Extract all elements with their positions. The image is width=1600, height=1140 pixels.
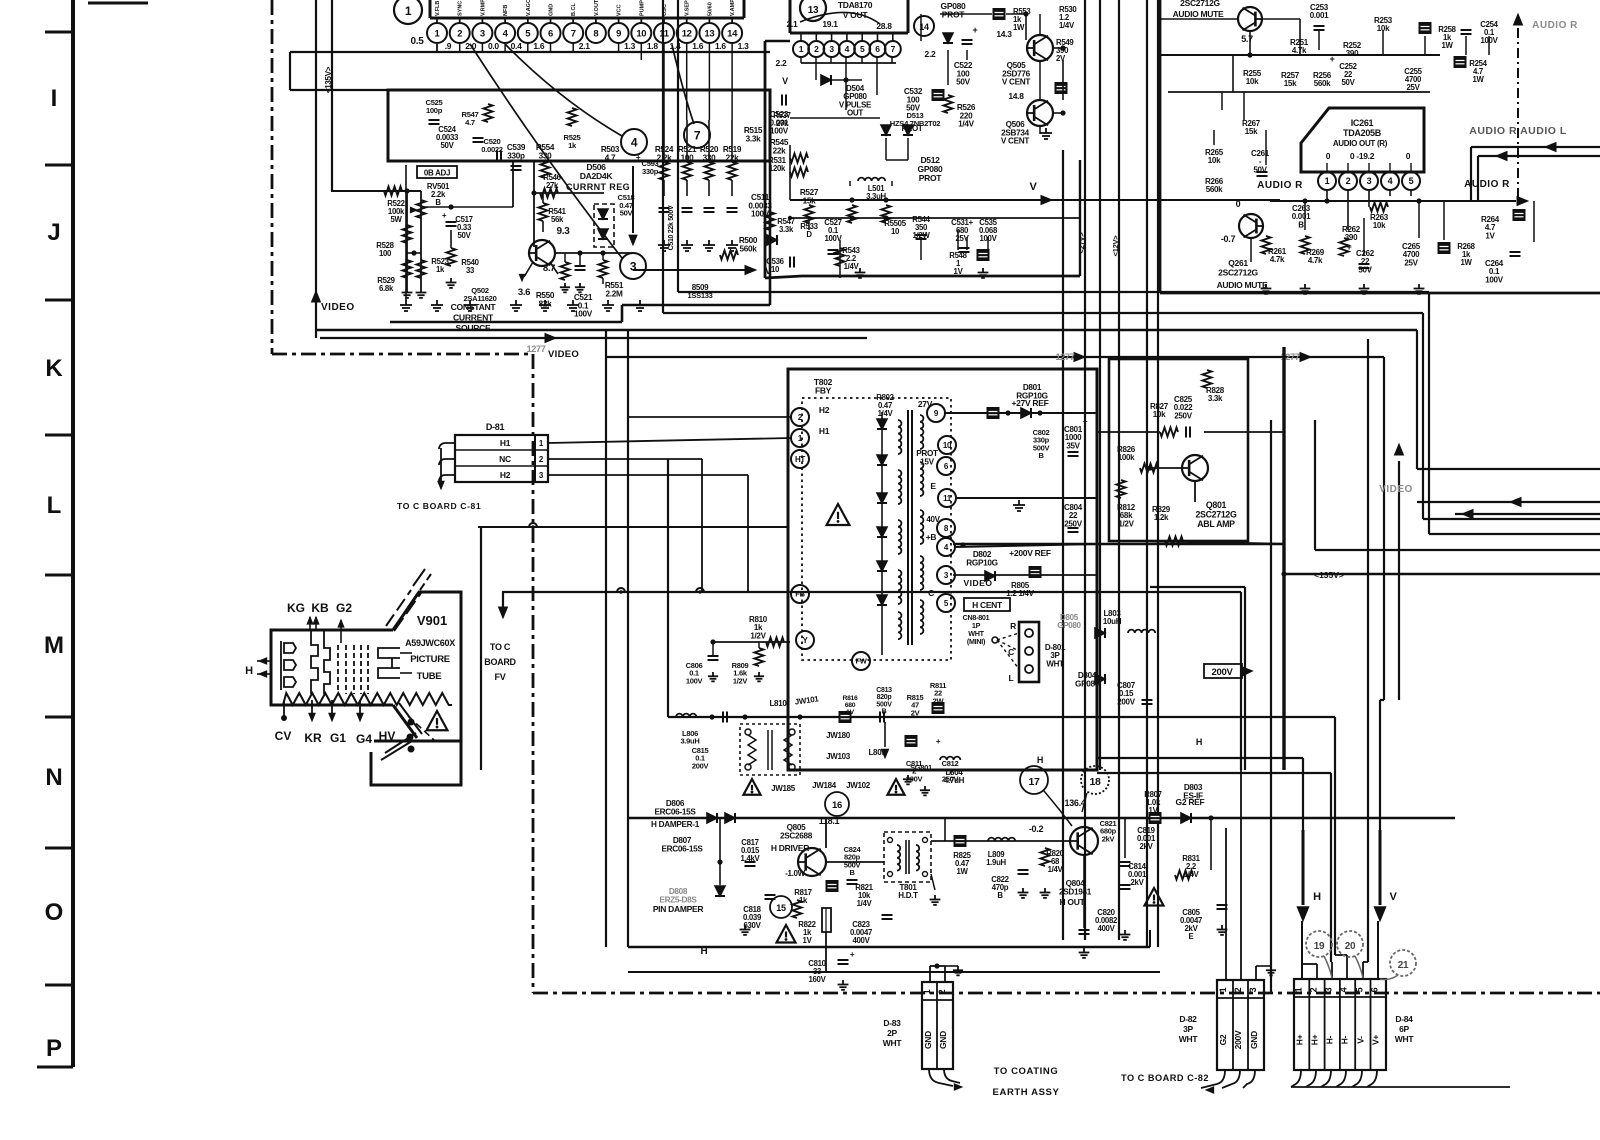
svg-text:V+: V+ — [1371, 1035, 1381, 1045]
svg-text:400V: 400V — [1097, 924, 1115, 933]
svg-text:V CENT: V CENT — [1001, 137, 1030, 146]
svg-text:2V: 2V — [911, 708, 920, 717]
svg-text:H1: H1 — [500, 438, 511, 448]
svg-text:1.4: 1.4 — [670, 41, 681, 51]
svg-text:1SS133: 1SS133 — [688, 291, 713, 300]
svg-text:AUDIO R: AUDIO R — [1532, 20, 1578, 31]
svg-text:6.8k: 6.8k — [379, 284, 394, 293]
svg-text:1W: 1W — [956, 867, 968, 876]
svg-text:FV: FV — [495, 672, 506, 682]
svg-text:4: 4 — [631, 135, 638, 149]
svg-text:50V: 50V — [956, 78, 971, 87]
svg-text:1/2V: 1/2V — [1118, 519, 1134, 528]
svg-text:L: L — [47, 492, 62, 519]
svg-text:JW180: JW180 — [826, 731, 851, 740]
svg-text:JW185: JW185 — [771, 784, 796, 793]
svg-text:B: B — [1038, 451, 1044, 460]
svg-text:ERC06-15S: ERC06-15S — [662, 844, 704, 853]
svg-text:-0.2: -0.2 — [1029, 824, 1044, 834]
svg-text:TUBE: TUBE — [417, 671, 442, 682]
svg-text:Q261: Q261 — [1228, 258, 1248, 268]
svg-text:R: R — [1010, 621, 1016, 631]
svg-text:2: 2 — [1309, 987, 1319, 992]
svg-text:118.1: 118.1 — [819, 816, 840, 826]
svg-text:560k: 560k — [1314, 79, 1331, 88]
svg-text:Q801: Q801 — [1206, 500, 1227, 510]
svg-text:200V: 200V — [1117, 697, 1135, 706]
svg-text:HV: HV — [379, 729, 396, 743]
svg-text:10k: 10k — [1246, 77, 1259, 86]
svg-text:GP080: GP080 — [1075, 679, 1100, 688]
svg-text:250V: 250V — [1174, 411, 1192, 420]
svg-text:5W: 5W — [390, 215, 402, 224]
svg-text:E: E — [930, 481, 936, 491]
svg-text:AUDIO MUTE: AUDIO MUTE — [1173, 9, 1224, 19]
svg-text:3.3k: 3.3k — [779, 225, 794, 234]
svg-text:2SC2712G: 2SC2712G — [1195, 510, 1237, 520]
svg-text:50V: 50V — [1358, 265, 1372, 274]
svg-text:G4: G4 — [356, 732, 372, 746]
svg-text:3.3k: 3.3k — [746, 134, 761, 143]
svg-text:100V: 100V — [1485, 275, 1503, 284]
svg-text:TDA205B: TDA205B — [1343, 128, 1382, 138]
svg-text:B: B — [435, 198, 441, 207]
svg-text:B: B — [997, 891, 1003, 900]
svg-text:CURRENT: CURRENT — [453, 313, 494, 323]
svg-text:+: + — [1347, 242, 1352, 252]
svg-text:2: 2 — [937, 989, 947, 994]
svg-text:10k: 10k — [1208, 156, 1221, 165]
svg-text:2.1: 2.1 — [787, 19, 798, 29]
svg-text:1.2k: 1.2k — [1154, 513, 1169, 522]
svg-text:V.FLB: V.FLB — [435, 1, 441, 16]
svg-text:SOURCE: SOURCE — [456, 323, 492, 333]
svg-text:1.6: 1.6 — [692, 41, 703, 51]
svg-text:J: J — [47, 219, 60, 246]
svg-text:+: + — [1083, 417, 1088, 426]
svg-text:H: H — [245, 665, 253, 677]
svg-text:3.6: 3.6 — [518, 287, 530, 298]
svg-text:H2: H2 — [819, 405, 830, 415]
svg-text:3: 3 — [480, 28, 485, 39]
svg-text:.9: .9 — [445, 41, 452, 51]
svg-text:200V: 200V — [906, 774, 923, 783]
svg-text:10: 10 — [943, 441, 952, 450]
svg-text:H CENT: H CENT — [972, 600, 1003, 610]
svg-text:4: 4 — [845, 44, 850, 54]
svg-text:+200V REF: +200V REF — [1009, 548, 1051, 558]
svg-text:D-84: D-84 — [1395, 1014, 1413, 1024]
svg-text:N: N — [45, 764, 62, 791]
svg-text:ABL AMP: ABL AMP — [1197, 519, 1235, 529]
svg-text:VIDEO: VIDEO — [1379, 484, 1413, 495]
svg-text:1: 1 — [405, 4, 412, 18]
svg-text:H+: H+ — [1310, 1034, 1320, 1045]
svg-text:50/60: 50/60 — [707, 2, 713, 16]
svg-text:V.RMP: V.RMP — [480, 0, 486, 16]
svg-text:V.OUT: V.OUT — [594, 0, 600, 16]
svg-text:GND: GND — [938, 1031, 948, 1049]
svg-text:0.0022: 0.0022 — [481, 145, 503, 154]
svg-text:1/2V: 1/2V — [733, 676, 748, 685]
svg-text:2.1: 2.1 — [579, 41, 590, 51]
svg-text:2: 2 — [1346, 176, 1351, 186]
svg-text:390: 390 — [1346, 49, 1359, 58]
svg-text:6P: 6P — [1399, 1024, 1409, 1034]
svg-text:560k: 560k — [739, 244, 757, 253]
svg-text:+: + — [636, 153, 641, 162]
svg-text:100V: 100V — [770, 127, 789, 136]
svg-text:1W: 1W — [1013, 23, 1025, 32]
svg-text:0B ADJ: 0B ADJ — [424, 169, 450, 178]
svg-text:3: 3 — [1367, 176, 1372, 186]
svg-text:15: 15 — [776, 903, 786, 913]
svg-text:10k: 10k — [1153, 410, 1166, 419]
svg-text:16: 16 — [832, 800, 842, 811]
svg-text:1k: 1k — [436, 265, 445, 274]
svg-text:1/4V: 1/4V — [857, 899, 873, 908]
svg-text:330: 330 — [539, 151, 553, 160]
svg-text:<135V>: <135V> — [1314, 570, 1344, 580]
svg-text:1: 1 — [799, 44, 804, 54]
svg-text:1V: 1V — [846, 709, 854, 716]
svg-text:2SC2688: 2SC2688 — [780, 831, 813, 840]
svg-text:200V: 200V — [692, 761, 709, 770]
svg-text:H+: H+ — [1295, 1034, 1305, 1045]
svg-text:1: 1 — [1294, 987, 1304, 992]
svg-text:0.0: 0.0 — [488, 41, 499, 51]
svg-text:1.6: 1.6 — [715, 41, 726, 51]
svg-text:630V: 630V — [743, 921, 761, 930]
svg-text:AUDIO MUTE: AUDIO MUTE — [1217, 280, 1268, 290]
svg-text:B: B — [1298, 220, 1304, 229]
svg-text:1/4V: 1/4V — [1059, 21, 1075, 30]
svg-text:14.8: 14.8 — [1008, 91, 1024, 101]
svg-text:E: E — [1189, 932, 1194, 941]
svg-text:2: 2 — [457, 28, 462, 39]
svg-text:B: B — [849, 868, 855, 877]
svg-text:4: 4 — [1388, 176, 1393, 186]
svg-text:100: 100 — [379, 249, 392, 258]
svg-text:6: 6 — [1370, 987, 1380, 992]
svg-text:1/4V: 1/4V — [844, 262, 860, 271]
svg-text:400V: 400V — [852, 936, 870, 945]
svg-text:IC261: IC261 — [1351, 118, 1374, 128]
svg-text:<12V>: <12V> — [1111, 235, 1120, 257]
svg-text:CURRNT REG: CURRNT REG — [566, 182, 630, 192]
svg-text:21: 21 — [1398, 960, 1409, 971]
svg-text:OSC: OSC — [662, 4, 668, 16]
svg-text:D-82: D-82 — [1179, 1014, 1197, 1024]
svg-text:82k: 82k — [539, 299, 553, 308]
svg-text:GND: GND — [1249, 1031, 1259, 1049]
svg-text:1V: 1V — [954, 267, 964, 276]
svg-text:+27V REF: +27V REF — [1011, 398, 1048, 408]
svg-text:1k: 1k — [568, 141, 577, 150]
svg-text:G2: G2 — [336, 601, 352, 615]
svg-text:AUDIO OUT (R): AUDIO OUT (R) — [1333, 139, 1388, 148]
svg-text:330p: 330p — [642, 167, 659, 176]
svg-text:3: 3 — [1324, 987, 1334, 992]
svg-text:AUDIO R: AUDIO R — [1257, 180, 1303, 191]
svg-text:1V: 1V — [1485, 231, 1495, 240]
svg-text:2SC2712G: 2SC2712G — [1218, 268, 1258, 278]
svg-text:9: 9 — [616, 28, 621, 39]
svg-text:C510 22k 500V: C510 22k 500V — [668, 205, 675, 250]
svg-text:V.AGC: V.AGC — [526, 0, 532, 16]
svg-text:VIDEO: VIDEO — [548, 349, 579, 360]
svg-text:FW: FW — [855, 657, 867, 666]
svg-text:BOARD: BOARD — [484, 657, 516, 667]
svg-text:H OUT: H OUT — [1060, 897, 1086, 907]
svg-text:2: 2 — [1233, 987, 1243, 992]
svg-text:13: 13 — [808, 5, 819, 16]
svg-text:D: D — [806, 230, 812, 239]
svg-text:5: 5 — [1409, 176, 1414, 186]
svg-text:330p: 330p — [507, 151, 525, 160]
svg-text:1.3: 1.3 — [624, 41, 635, 51]
svg-text:3: 3 — [829, 44, 834, 54]
svg-text:GND: GND — [923, 1031, 933, 1049]
svg-text:D-83: D-83 — [883, 1018, 901, 1028]
svg-text:250V: 250V — [942, 774, 959, 783]
svg-text:L: L — [1009, 673, 1014, 683]
svg-text:12: 12 — [682, 28, 692, 39]
svg-text:2kV: 2kV — [1102, 834, 1115, 843]
svg-text:G2: G2 — [1218, 1034, 1228, 1045]
svg-text:4.7: 4.7 — [605, 153, 616, 162]
svg-text:2V: 2V — [1056, 54, 1066, 63]
svg-text:0: 0 — [1236, 199, 1241, 209]
svg-text:<27V>: <27V> — [1077, 232, 1086, 254]
svg-text:1/2V: 1/2V — [750, 631, 766, 640]
svg-text:V901: V901 — [417, 613, 447, 628]
svg-text:C: C — [928, 588, 934, 598]
svg-text:1.9uH: 1.9uH — [986, 858, 1006, 867]
svg-text:PIN DAMPER: PIN DAMPER — [653, 904, 704, 914]
svg-text:2kV: 2kV — [1131, 878, 1145, 887]
svg-text:JW184: JW184 — [812, 781, 837, 790]
svg-text:20: 20 — [1345, 941, 1356, 952]
svg-text:2SC2712G: 2SC2712G — [1180, 0, 1220, 8]
svg-text:H DAMPER-1: H DAMPER-1 — [651, 820, 700, 829]
svg-text:I: I — [51, 85, 58, 112]
svg-text:H.D.T: H.D.T — [898, 891, 918, 900]
svg-text:9.3: 9.3 — [556, 226, 570, 237]
svg-text:EARTH ASSY: EARTH ASSY — [993, 1087, 1060, 1098]
svg-text:2.2M: 2.2M — [605, 289, 622, 298]
svg-text:V: V — [1029, 181, 1037, 193]
svg-text:H-: H- — [1325, 1035, 1335, 1044]
svg-text:1: 1 — [1325, 176, 1330, 186]
svg-text:6: 6 — [548, 28, 553, 39]
svg-text:P: P — [46, 1035, 62, 1062]
svg-text:ERZ5-D8S: ERZ5-D8S — [659, 895, 697, 904]
svg-text:1: 1 — [922, 989, 932, 994]
svg-text:H: H — [1037, 755, 1043, 765]
svg-text:1: 1 — [1218, 987, 1228, 992]
svg-text:+: + — [973, 25, 978, 35]
svg-text:10: 10 — [891, 227, 900, 236]
svg-text:2.2: 2.2 — [925, 49, 936, 59]
svg-text:7: 7 — [694, 128, 701, 142]
svg-text:1W: 1W — [1472, 75, 1484, 84]
svg-text:1/4V: 1/4V — [878, 409, 894, 418]
svg-text:DA2D4K: DA2D4K — [580, 171, 614, 181]
svg-text:JW102: JW102 — [846, 781, 871, 790]
svg-text:25V: 25V — [1407, 83, 1421, 92]
svg-text:15V: 15V — [920, 457, 935, 466]
svg-text:8: 8 — [593, 28, 598, 39]
svg-text:D-81: D-81 — [486, 422, 505, 432]
svg-text:H: H — [1313, 891, 1321, 903]
svg-text:+: + — [936, 737, 941, 746]
svg-text:100p: 100p — [426, 106, 443, 115]
svg-text:820p: 820p — [877, 694, 892, 701]
svg-text:GP080: GP080 — [1057, 621, 1081, 630]
svg-text:7: 7 — [571, 28, 576, 39]
svg-text:KG: KG — [287, 601, 305, 615]
svg-text:3: 3 — [630, 259, 637, 273]
svg-text:7: 7 — [891, 44, 896, 54]
svg-text:6: 6 — [875, 44, 880, 54]
svg-text:TO C: TO C — [490, 642, 511, 652]
svg-text:VIDEO: VIDEO — [964, 578, 993, 588]
svg-text:NFB: NFB — [503, 5, 509, 16]
svg-text:SYNC: SYNC — [458, 1, 464, 16]
svg-text:14: 14 — [727, 28, 738, 39]
svg-text:50V: 50V — [441, 141, 455, 150]
svg-text:10: 10 — [636, 28, 646, 39]
svg-text:V CENT: V CENT — [1002, 78, 1031, 87]
svg-text:K: K — [45, 355, 63, 382]
svg-text:FBY: FBY — [815, 386, 832, 396]
svg-text:OUT: OUT — [847, 108, 863, 117]
svg-text:(MINI): (MINI) — [967, 637, 986, 646]
svg-text:250V: 250V — [1064, 519, 1082, 528]
svg-text:H1: H1 — [819, 426, 830, 436]
svg-text:V OUT: V OUT — [843, 10, 869, 20]
svg-text:200V: 200V — [1233, 1030, 1243, 1049]
svg-text:15k: 15k — [1284, 79, 1297, 88]
svg-text:RGP10G: RGP10G — [966, 558, 997, 567]
svg-text:V: V — [782, 76, 788, 86]
svg-text:136.4: 136.4 — [1064, 798, 1085, 808]
svg-text:1.6: 1.6 — [533, 41, 544, 51]
svg-text:2kV: 2kV — [1140, 842, 1154, 851]
svg-text:TO C BOARD C-81: TO C BOARD C-81 — [397, 501, 481, 511]
svg-text:WHT: WHT — [1179, 1034, 1199, 1044]
svg-text:V.AMP: V.AMP — [730, 0, 736, 16]
svg-text:100V: 100V — [686, 676, 703, 685]
svg-text:13: 13 — [704, 28, 714, 39]
svg-text:2: 2 — [814, 44, 819, 54]
svg-text:1.3: 1.3 — [738, 41, 749, 51]
svg-text:4.7k: 4.7k — [1270, 255, 1285, 264]
svg-text:G2 REF: G2 REF — [1176, 797, 1205, 807]
svg-text:3: 3 — [1248, 987, 1258, 992]
svg-text:17: 17 — [1028, 776, 1040, 788]
svg-text:FB: FB — [795, 590, 805, 599]
svg-text:-1.0W: -1.0W — [785, 869, 806, 878]
svg-text:ERC06-15S: ERC06-15S — [655, 807, 697, 816]
svg-text:PROT: PROT — [919, 173, 943, 183]
svg-text:19.1: 19.1 — [822, 19, 838, 29]
svg-text:VCC: VCC — [617, 4, 623, 16]
svg-text:GND: GND — [549, 4, 555, 16]
svg-text:O: O — [45, 899, 64, 926]
svg-text:25V: 25V — [1404, 258, 1418, 267]
svg-text:1.8: 1.8 — [647, 41, 658, 51]
svg-text:-0.7: -0.7 — [1221, 234, 1236, 244]
svg-text:27V: 27V — [918, 399, 933, 409]
svg-text:0.5: 0.5 — [410, 36, 424, 47]
svg-text:WHT: WHT — [1395, 1034, 1415, 1044]
svg-text:1/4V: 1/4V — [958, 120, 974, 129]
svg-text:5: 5 — [1355, 987, 1365, 992]
svg-text:14.3: 14.3 — [996, 29, 1012, 39]
svg-text:200V: 200V — [1212, 667, 1234, 678]
svg-text:500V: 500V — [876, 701, 892, 708]
svg-text:11: 11 — [943, 494, 952, 503]
svg-text:10k: 10k — [1373, 221, 1386, 230]
svg-text:M: M — [44, 632, 64, 659]
svg-text:+B: +B — [926, 532, 937, 542]
svg-text:WHT: WHT — [1046, 659, 1064, 668]
svg-text:H-: H- — [1340, 1035, 1350, 1044]
svg-text:0 -19.2: 0 -19.2 — [1350, 151, 1375, 161]
svg-text:1/4V: 1/4V — [1048, 865, 1064, 874]
svg-text:8.7: 8.7 — [543, 263, 555, 274]
svg-text:2SD1941: 2SD1941 — [1059, 887, 1092, 896]
svg-text:18: 18 — [1089, 776, 1101, 788]
svg-text:B.CL: B.CL — [571, 3, 577, 16]
svg-text:KR: KR — [304, 731, 322, 745]
svg-text:3.9uH: 3.9uH — [681, 737, 700, 746]
svg-text:0.4: 0.4 — [511, 41, 522, 51]
svg-text:+: + — [442, 211, 447, 220]
svg-text:2P: 2P — [887, 1028, 897, 1038]
svg-text:35V: 35V — [1066, 441, 1080, 450]
svg-text:1W: 1W — [1441, 41, 1453, 50]
svg-text:3.3k: 3.3k — [1208, 394, 1223, 403]
svg-text:10uH: 10uH — [1103, 617, 1122, 626]
svg-text:100V: 100V — [574, 310, 593, 319]
svg-text:1.2 1/4V: 1.2 1/4V — [1006, 589, 1034, 598]
svg-text:H: H — [1196, 737, 1202, 747]
svg-text:15k: 15k — [1245, 127, 1258, 136]
svg-text:TO C BOARD C-82: TO C BOARD C-82 — [1121, 1073, 1209, 1083]
svg-text:PICTURE: PICTURE — [410, 654, 450, 665]
svg-text:0.001: 0.001 — [1310, 11, 1329, 20]
svg-text:TO COATING: TO COATING — [994, 1066, 1059, 1077]
svg-text:H2: H2 — [500, 470, 511, 480]
svg-text:40V: 40V — [926, 515, 940, 524]
svg-text:A59JWC60X: A59JWC60X — [405, 638, 455, 648]
svg-text:22k: 22k — [773, 146, 787, 155]
svg-text:C813: C813 — [876, 687, 892, 694]
svg-text:120k: 120k — [769, 164, 786, 173]
svg-text:4.7k: 4.7k — [1308, 256, 1323, 265]
svg-text:50V: 50V — [620, 209, 634, 218]
svg-text:NC: NC — [499, 454, 511, 464]
svg-text:VIDEO: VIDEO — [321, 302, 355, 313]
svg-text:1277: 1277 — [527, 344, 546, 354]
svg-text:V-: V- — [1356, 1036, 1366, 1044]
svg-text:JW103: JW103 — [826, 752, 851, 761]
svg-text:2.2: 2.2 — [776, 58, 787, 68]
svg-text:100k: 100k — [1118, 453, 1135, 462]
